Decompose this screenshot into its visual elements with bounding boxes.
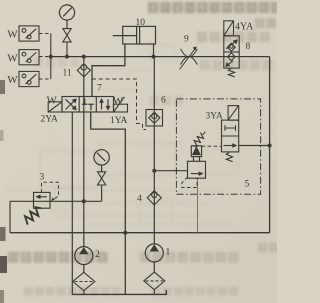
- wire relief valve 5 feed: [154, 170, 187, 172]
- check valve 4: [147, 191, 161, 205]
- directional valve 7 (4/3): [62, 97, 114, 113]
- junction: [123, 231, 127, 235]
- pressure switch bus (dashed links + vertical): [39, 34, 51, 80]
- shutoff valve (below gauge 2): [98, 172, 106, 189]
- relief valve 5 (pilot stage + main stage): [188, 132, 206, 178]
- junction: [49, 55, 53, 59]
- drain (dashed) under relief valve 5: [182, 177, 197, 188]
- valve 3YA (unloading solenoid valve): [222, 106, 239, 162]
- pressure switch PS2: [19, 50, 39, 65]
- cylinder 10: [113, 26, 156, 44]
- throttle valve 9: [180, 46, 198, 69]
- wire main pressure line (top horizontal): [51, 56, 270, 58]
- filter (under pump 2): [73, 272, 95, 294]
- junction: [65, 55, 69, 59]
- wire relief valve 3 branch line to gauge 2: [10, 188, 102, 201]
- wire 3YA valve outlet to right line: [239, 145, 270, 147]
- valve 8 (pilot check / solenoid valve): [224, 21, 239, 77]
- pilot line (dashed) relief valve 3: [42, 182, 59, 200]
- junction: [152, 55, 156, 59]
- enclosure (dash-dot) of relief unit 5: [176, 99, 260, 194]
- wire relief valve 5 outlet: [197, 178, 199, 233]
- pressure switch PS3: [19, 71, 39, 86]
- solenoid 1YA (right): [114, 97, 128, 112]
- wire valve7 tank return to center drop: [91, 112, 126, 294]
- wire return manifold (lower horizontal): [10, 232, 270, 234]
- relief valve 3: [25, 192, 50, 224]
- wire tank line: [72, 290, 166, 295]
- check valve 11: [77, 64, 90, 77]
- pressure gauge (top left): [59, 5, 74, 29]
- solenoid 2YA (left): [48, 102, 62, 112]
- wire right-edge return line: [269, 57, 271, 233]
- filter (under pump 1): [144, 272, 165, 294]
- wire valve7 A-port to cylinder rod side: [92, 44, 125, 97]
- pilot line (dashed) relief 5 to 3YA valve: [202, 145, 222, 147]
- junction: [152, 169, 156, 173]
- pump 1: [145, 244, 163, 272]
- pump 2: [75, 247, 93, 273]
- pressure switch PS1: [19, 26, 39, 41]
- check valve 6: [146, 110, 163, 127]
- pilot line (dashed) valve7 to check valve 6: [92, 79, 146, 130]
- shutoff valve (below gauge 1): [63, 29, 71, 57]
- wire pump2 riser (pressure from pump 2 up through valve 7 and check 11): [83, 57, 85, 247]
- wire cylinder cap-side port down to main line: [153, 44, 155, 57]
- wire pump1 riser: [153, 57, 155, 244]
- junction: [268, 144, 272, 148]
- junction: [82, 55, 86, 59]
- wire valve7 T-return left: [71, 112, 73, 294]
- junction: [82, 199, 86, 203]
- wire relief valve 3 outlet drop: [9, 201, 11, 232]
- pressure gauge 2: [94, 150, 109, 172]
